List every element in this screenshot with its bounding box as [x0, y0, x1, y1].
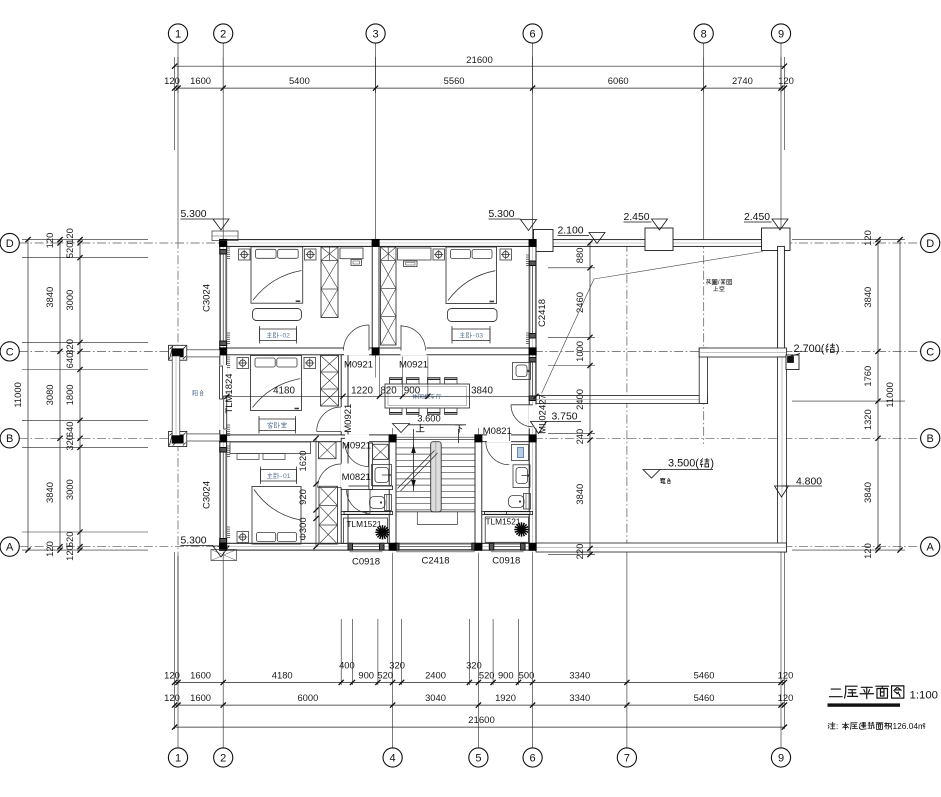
svg-text:5460: 5460 — [694, 670, 715, 681]
svg-text:3340: 3340 — [569, 692, 590, 703]
svg-text:640: 640 — [64, 421, 75, 437]
svg-text:6000: 6000 — [297, 692, 318, 703]
svg-text:5.300: 5.300 — [181, 209, 207, 220]
svg-text:2.450: 2.450 — [744, 212, 770, 223]
svg-text:520: 520 — [377, 670, 393, 681]
wall bath1 top — [341, 486, 392, 489]
grid bubble left A — [0, 537, 19, 556]
svg-text:900: 900 — [358, 670, 374, 681]
svg-text:M0821: M0821 — [342, 472, 371, 483]
top dim extension lines — [174, 57, 176, 150]
svg-text:1600: 1600 — [190, 75, 211, 86]
stair label down — [455, 424, 463, 426]
svg-text:2: 2 — [220, 28, 226, 40]
axis line 9 vertical — [780, 42, 782, 240]
svg-text:1: 1 — [175, 28, 181, 40]
stair elevation triangle — [393, 424, 410, 433]
left dim extension lines — [22, 239, 148, 241]
svg-text:M0921: M0921 — [342, 441, 371, 452]
svg-text:120: 120 — [164, 692, 180, 703]
svg-text:5.300: 5.300 — [489, 209, 515, 220]
wall hatch comb right wall b — [526, 332, 529, 334]
wall hatch comb left wall d — [227, 424, 230, 426]
axis line 7 vertical — [626, 243, 628, 552]
grid bubble left B — [0, 429, 19, 448]
svg-text:): ) — [710, 458, 714, 470]
wall hatch comb right wall a — [526, 254, 529, 256]
wardrobe room01 — [319, 486, 338, 544]
wall along C — [223, 348, 529, 355]
wall hatch comb left wall a — [227, 247, 230, 249]
garden right wall — [778, 246, 785, 352]
svg-text:4: 4 — [390, 752, 396, 764]
svg-text:7: 7 — [624, 752, 630, 764]
right dim extension lines — [792, 239, 905, 241]
svg-text:1000: 1000 — [574, 341, 585, 362]
svg-text:920: 920 — [297, 489, 308, 505]
left dim col2 line — [59, 240, 61, 550]
grid bubble top 2 — [214, 24, 233, 43]
grid bubble top 9 — [771, 24, 790, 43]
svg-text:D: D — [926, 238, 934, 250]
svg-text:2400: 2400 — [425, 670, 446, 681]
wall room01 right x344 — [341, 438, 348, 543]
wall stair left axis4 — [389, 438, 396, 546]
balcony rail vertical — [172, 356, 180, 436]
svg-text:C3024: C3024 — [202, 481, 213, 509]
wall top along D — [220, 240, 536, 247]
svg-text:C0918: C0918 — [352, 557, 380, 568]
svg-text:C2418: C2418 — [422, 556, 450, 567]
svg-text:120: 120 — [164, 75, 180, 86]
svg-text:1800: 1800 — [64, 384, 75, 405]
svg-text:2: 2 — [286, 333, 290, 340]
svg-text:M0821: M0821 — [483, 426, 512, 437]
stair steps — [397, 447, 475, 449]
svg-text:3000: 3000 — [64, 290, 75, 311]
opening room01 door — [341, 464, 349, 488]
svg-text:(: ( — [821, 343, 825, 355]
svg-text:2400: 2400 — [574, 389, 585, 410]
shower room bath2 outline — [485, 517, 528, 542]
axis line 3 vertical — [375, 42, 377, 240]
grid bubble left C — [0, 342, 19, 361]
door M0821 bath1 — [347, 490, 371, 514]
svg-text:3040: 3040 — [425, 692, 446, 703]
svg-text:21600: 21600 — [466, 55, 493, 66]
stair bottom edge — [397, 511, 475, 513]
svg-text:5400: 5400 — [289, 75, 310, 86]
svg-text:520: 520 — [64, 532, 75, 548]
wall bath shower sill 2 — [482, 512, 533, 515]
left dim col1 line 11000 — [27, 240, 29, 550]
desk room02 — [340, 248, 363, 259]
svg-text:M0921: M0921 — [343, 404, 354, 433]
bed room03 — [446, 247, 497, 304]
svg-text:/: / — [718, 279, 720, 286]
svg-text:4180: 4180 — [273, 385, 295, 396]
grid bubble top 3 — [366, 24, 385, 43]
door M0921 room02 — [368, 325, 370, 351]
fence corner block at axis 6 — [534, 230, 554, 252]
svg-text:3.750: 3.750 — [552, 412, 578, 423]
svg-text:M0921: M0921 — [399, 359, 428, 370]
terrace parapet step horizontal — [536, 396, 708, 404]
window sill C2418 bottom — [396, 551, 475, 553]
svg-text:B: B — [927, 433, 934, 445]
svg-text:120: 120 — [778, 670, 794, 681]
svg-text:120: 120 — [778, 75, 794, 86]
opening balcony door TLM1824 — [219, 365, 227, 430]
grid bubble top 1 — [168, 24, 187, 43]
opening B wall stairs — [396, 434, 475, 442]
svg-text:6: 6 — [530, 28, 536, 40]
wall bottom along A — [220, 543, 536, 550]
grid bubble bottom 1 — [168, 748, 187, 767]
grid bubble right B — [921, 429, 940, 448]
axis line 4 vertical — [392, 428, 394, 556]
wall right axis 6 — [529, 240, 536, 550]
sink bath1 — [372, 465, 392, 486]
inner dim row y396 line — [224, 395, 537, 397]
svg-text:3: 3 — [479, 333, 483, 340]
svg-text:1: 1 — [175, 752, 181, 764]
svg-text:9: 9 — [778, 28, 784, 40]
svg-text:TLM1521: TLM1521 — [485, 517, 520, 527]
svg-text:2.100: 2.100 — [558, 226, 584, 237]
svg-text:820: 820 — [380, 385, 397, 396]
desk room03 — [398, 248, 432, 260]
svg-text:880: 880 — [574, 248, 585, 264]
title text — [831, 688, 840, 690]
shelf room03 — [404, 261, 418, 267]
nightstand guest left — [237, 358, 249, 369]
svg-text:3340: 3340 — [569, 670, 590, 681]
svg-text:11000: 11000 — [12, 382, 23, 407]
svg-text:C: C — [926, 346, 934, 358]
nightstand room02 right — [305, 249, 317, 260]
svg-text:400: 400 — [339, 660, 355, 671]
svg-text:(: ( — [695, 458, 699, 470]
svg-text:ML02427: ML02427 — [538, 394, 549, 434]
svg-text:Φ300: Φ300 — [297, 517, 308, 540]
svg-text:11000: 11000 — [884, 382, 895, 407]
window C2418 stair — [399, 543, 472, 550]
dining chairs top — [390, 378, 403, 385]
axis line 5 vertical — [477, 428, 479, 556]
svg-text:240: 240 — [574, 429, 585, 445]
door leaf stub bath2 — [509, 431, 511, 442]
dining table — [385, 384, 470, 408]
left dim col3 line — [79, 240, 81, 550]
svg-text:3000: 3000 — [64, 479, 75, 500]
wardrobe room03 — [381, 247, 397, 345]
svg-text:120: 120 — [64, 228, 75, 244]
axis line 6 vertical — [532, 42, 534, 240]
svg-text:C: C — [6, 346, 14, 358]
wall hatch comb left wall c — [227, 356, 230, 358]
inner dim row y396 extensions — [378, 357, 380, 397]
axis line 8 vertical — [703, 42, 705, 240]
wall stair right axis5 — [475, 438, 482, 546]
corner step bottom-left — [211, 550, 237, 561]
svg-text:5460: 5460 — [694, 692, 715, 703]
toilet bath1 — [385, 495, 392, 511]
opening terrace door ML02427 — [529, 405, 537, 429]
grid bubble right D — [921, 233, 940, 252]
balcony rail top — [187, 350, 220, 357]
room label 主卧-01 — [261, 470, 297, 482]
svg-text:D: D — [6, 238, 14, 250]
wall bath shower sill 1 — [341, 512, 392, 515]
top dim line total 21600 — [175, 65, 785, 67]
pier at C right — [786, 355, 799, 370]
floor drain bath1 — [380, 530, 384, 534]
inner dim col x590 extensions — [548, 267, 595, 269]
svg-text:3840: 3840 — [862, 482, 873, 503]
svg-text:1: 1 — [287, 473, 291, 480]
door M0821 bath2 — [486, 441, 510, 465]
nightstand room03 left — [433, 249, 445, 260]
room label 主卧-03 — [452, 329, 490, 341]
svg-text:): ) — [836, 343, 840, 355]
garden fence wall along D — [536, 240, 784, 247]
opening C wall door M0921 b — [401, 348, 427, 356]
sliding door TLM1521 bath2 — [485, 512, 509, 515]
stair down stub — [458, 429, 460, 443]
svg-text:120: 120 — [44, 541, 55, 557]
stair landing rail — [416, 512, 418, 525]
shower room bath1 outline — [344, 518, 388, 544]
door M0921 corridor — [368, 443, 370, 467]
door M0821 room01 — [318, 487, 342, 489]
bottom dim extension lines short — [340, 619, 342, 685]
svg-text:3: 3 — [373, 28, 379, 40]
window C0918 right — [494, 543, 521, 550]
window C3024 room01 — [220, 452, 227, 539]
corner step top-left — [212, 231, 238, 241]
svg-text:320: 320 — [389, 660, 405, 671]
wall hatch comb left wall e — [227, 445, 230, 447]
svg-text:3080: 3080 — [44, 384, 55, 405]
sliding door TLM1521 bath1 — [344, 512, 368, 515]
kitchen sink — [513, 363, 531, 380]
fence post 2 at axis 9 — [762, 228, 791, 251]
window C2418 room03 — [529, 266, 536, 334]
svg-text:C3024: C3024 — [202, 284, 213, 312]
window C3024 room02 — [220, 254, 227, 341]
svg-text:²: ² — [923, 721, 926, 731]
bottom dim row2 line — [175, 704, 785, 706]
desk room01 — [230, 442, 311, 454]
svg-text:120: 120 — [164, 670, 180, 681]
washer bath2 — [512, 445, 529, 461]
svg-text:4180: 4180 — [272, 670, 293, 681]
title underline — [828, 703, 901, 706]
svg-text:120: 120 — [862, 543, 873, 559]
bed room01 — [252, 487, 301, 545]
shaft room01 — [319, 442, 337, 459]
bed room02 — [251, 247, 303, 303]
stair break line — [398, 451, 435, 489]
toilet bath2 — [524, 494, 531, 510]
svg-text:3840: 3840 — [44, 287, 55, 308]
svg-text:3840: 3840 — [44, 482, 55, 503]
svg-text:3840: 3840 — [471, 385, 493, 396]
opening B wall bath2 door — [487, 434, 511, 442]
svg-text:1760: 1760 — [862, 366, 873, 387]
svg-text:2740: 2740 — [732, 75, 753, 86]
svg-text:5.300: 5.300 — [181, 536, 207, 547]
svg-text:1600: 1600 — [190, 692, 211, 703]
svg-text:3840: 3840 — [862, 287, 873, 308]
terrace parapet bottom — [536, 543, 787, 552]
dining table label — [412, 394, 415, 396]
right dim col1 line — [877, 240, 879, 550]
grid bubble right A — [921, 537, 940, 556]
door ML02427 terrace — [511, 405, 533, 427]
svg-text:8: 8 — [701, 28, 707, 40]
wall along B — [223, 435, 529, 442]
garden text — [706, 279, 710, 281]
grid bubble bottom 6 — [523, 748, 542, 767]
svg-text:640: 640 — [64, 353, 75, 369]
bench room03 — [448, 309, 498, 322]
inner dim col x312 line — [315, 438, 317, 546]
sliding door TLM1824 — [219, 365, 227, 430]
svg-text:2: 2 — [220, 752, 226, 764]
grid bubble left D — [0, 233, 19, 252]
svg-text:2.450: 2.450 — [624, 212, 650, 223]
wall axis 3 vertical — [372, 243, 379, 355]
axis line C horizontal — [19, 350, 921, 352]
title note — [828, 722, 831, 725]
bed guest room — [251, 356, 302, 411]
svg-text:900: 900 — [498, 670, 514, 681]
terrace parapet upper horizontal — [699, 348, 786, 357]
svg-text:2460: 2460 — [574, 292, 585, 313]
shaft bath1 — [373, 444, 389, 459]
svg-text:120: 120 — [778, 692, 794, 703]
fence post 1 — [645, 228, 673, 251]
svg-text:C0918: C0918 — [492, 556, 520, 567]
svg-text:9: 9 — [778, 752, 784, 764]
nightstand room03 right — [500, 249, 512, 260]
grid bubble bottom 9 — [771, 748, 790, 767]
grid bubble bottom 5 — [469, 748, 488, 767]
svg-text:3840: 3840 — [574, 484, 585, 505]
svg-text:120: 120 — [862, 230, 873, 246]
svg-text:M0921: M0921 — [344, 359, 373, 370]
window C2427 kitchen — [529, 362, 536, 396]
wall guest-dining x344 — [341, 355, 348, 435]
keyboard room01 a — [237, 454, 259, 460]
svg-text:1:100: 1:100 — [910, 690, 939, 702]
svg-text:1320: 1320 — [862, 409, 873, 430]
door M0921 guest room — [317, 431, 342, 433]
nightstand room01 — [237, 532, 249, 543]
garden leader line lower — [542, 279, 595, 394]
svg-text:A: A — [6, 542, 14, 554]
balcony column C — [169, 345, 187, 360]
grid bubble bottom 2 — [214, 748, 233, 767]
svg-text:TLM1521: TLM1521 — [346, 519, 381, 529]
svg-text::: : — [836, 721, 838, 731]
dining chairs bottom — [390, 408, 403, 415]
balcony rail bottom — [187, 434, 220, 441]
svg-text:1920: 1920 — [495, 692, 516, 703]
svg-text:500: 500 — [519, 670, 535, 681]
svg-text:5560: 5560 — [444, 75, 465, 86]
svg-text:B: B — [6, 433, 13, 445]
svg-text:900: 900 — [404, 385, 421, 396]
axis line 1 vertical — [177, 42, 179, 240]
bench room02 — [253, 309, 302, 321]
wardrobe room02 — [321, 247, 338, 318]
axis line D horizontal — [19, 242, 921, 244]
svg-text:1220: 1220 — [351, 385, 373, 396]
opening C wall door M0921 a — [344, 348, 369, 356]
svg-text:1620: 1620 — [297, 451, 308, 472]
wardrobe guest — [321, 356, 339, 407]
svg-text:220: 220 — [574, 544, 585, 560]
svg-text:520: 520 — [479, 670, 495, 681]
bottom dim extension lines long — [174, 552, 176, 729]
inner dim col x590 line — [589, 243, 591, 555]
terrace parapet step vertical — [699, 348, 707, 404]
svg-text:520: 520 — [64, 243, 75, 259]
window sill C0918 right — [491, 551, 524, 553]
svg-text:120: 120 — [44, 233, 55, 249]
opening guest room door — [341, 407, 349, 432]
svg-text:21600: 21600 — [468, 715, 495, 726]
bottom dim row1 line — [175, 681, 785, 683]
opening B wall corridor door — [345, 434, 369, 442]
svg-text:5: 5 — [475, 752, 481, 764]
wall hatch comb left wall b — [227, 332, 230, 334]
svg-text:A: A — [927, 542, 935, 554]
balcony label — [192, 390, 194, 395]
garden leader line upper — [594, 252, 763, 280]
svg-text:320: 320 — [64, 435, 75, 451]
sink bath2 — [513, 465, 530, 488]
svg-text:1600: 1600 — [190, 670, 211, 681]
keyboard room01 b — [263, 454, 285, 460]
grid bubble top 6 — [523, 24, 542, 43]
stair center rail — [431, 442, 442, 512]
nightstand room02 left — [239, 249, 251, 260]
wall hatch comb left wall f — [227, 526, 230, 528]
wall left axis 2 — [220, 240, 227, 550]
nightstand guest right — [304, 358, 316, 369]
stair up line — [413, 429, 415, 491]
room label 主卧-02 — [260, 329, 297, 341]
door M0921 room03 — [400, 325, 402, 351]
axis line B horizontal — [19, 437, 921, 439]
balcony column B — [169, 432, 187, 447]
grid bubble right C — [921, 342, 940, 361]
terrace parapet right vertical — [778, 357, 787, 552]
top dim line row2 — [175, 87, 785, 89]
wall bath1 fixture niche — [369, 443, 373, 489]
grid bubble bottom 4 — [383, 748, 402, 767]
right dim col2 line 11000 — [899, 240, 901, 550]
floor drain bath2 — [519, 527, 523, 531]
stair label up — [419, 424, 421, 432]
grid bubble top 8 — [694, 24, 713, 43]
window sill C0918 left — [350, 551, 383, 553]
axis line A horizontal — [19, 546, 921, 548]
